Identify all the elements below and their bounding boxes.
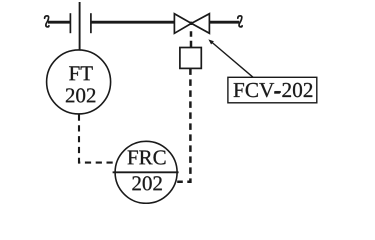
- signal line actuator to FRC controller (dashed): [177, 68, 190, 181]
- FCV-202 callout text: [234, 83, 313, 98]
- FCV-202 callout box: [228, 77, 317, 103]
- pipe break squiggle right: [238, 16, 242, 27]
- signal line valve stem (dashed): [190, 22, 193, 48]
- pipe segment left (process line): [48, 21, 70, 24]
- FT tag number 202: [66, 88, 95, 102]
- FCV-202 hyphen bold mark: [274, 91, 280, 94]
- FRC bubble divider line: [113, 171, 179, 173]
- controller FRC-202 bubble: [115, 141, 177, 203]
- pipe break squiggle left: [45, 16, 49, 27]
- valve actuator square: [180, 48, 201, 69]
- FT label text: [69, 66, 93, 80]
- pipe segment right (process line): [209, 21, 239, 24]
- FRC label text: [128, 150, 166, 164]
- orifice flange left: [69, 13, 71, 33]
- orifice flange right: [90, 13, 92, 33]
- callout arrow shaft: [211, 41, 253, 77]
- control valve FCV-202 body (right triangle): [191, 14, 209, 34]
- control valve FCV-202 body (left triangle): [174, 14, 191, 34]
- pipe segment middle (process line): [91, 21, 174, 24]
- signal line FT to FRC controller (dashed): [79, 115, 116, 163]
- callout arrowhead: [208, 39, 214, 44]
- orifice plate / FT lead line: [79, 2, 81, 50]
- FRC tag number 202: [132, 176, 161, 190]
- flow transmitter FT-202 bubble: [47, 50, 111, 114]
